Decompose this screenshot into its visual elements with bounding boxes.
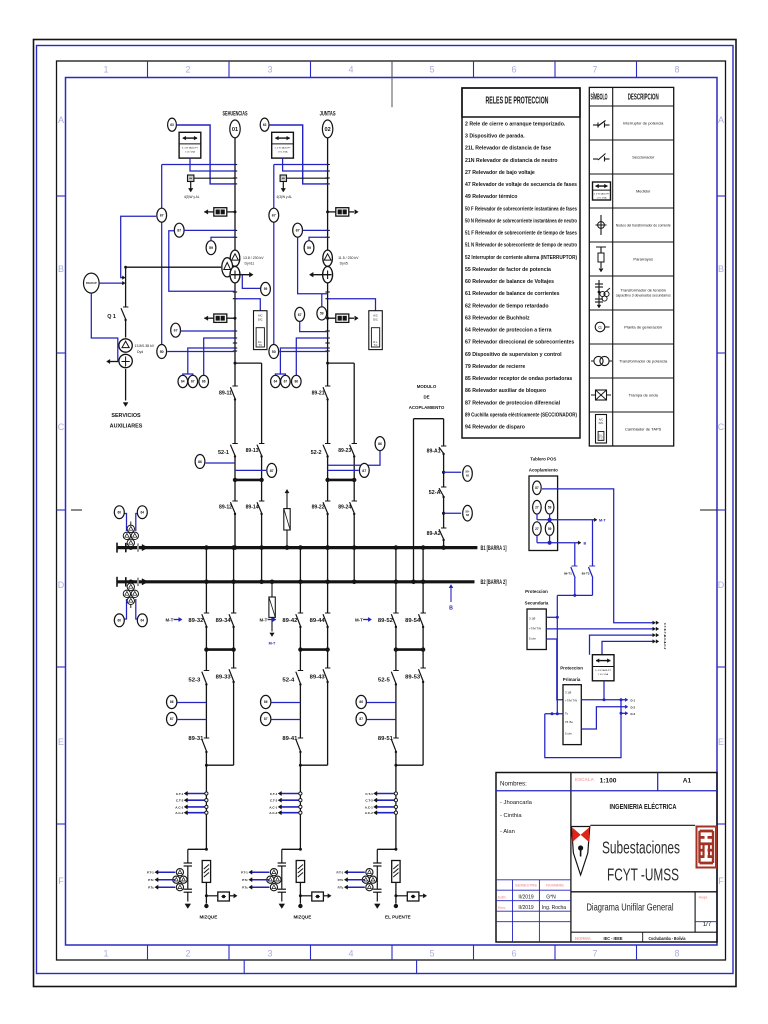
transformer T3 servicios auxiliares xyxy=(107,339,155,368)
svg-text:60: 60 xyxy=(118,510,122,514)
svg-text:7: 7 xyxy=(592,65,597,75)
trampa de onda outgoing bay 3 xyxy=(205,892,237,901)
svg-text:89-T2: 89-T2 xyxy=(582,572,590,576)
svg-text:79 Relevador de recierre: 79 Relevador de recierre xyxy=(465,364,525,370)
svg-text:87: 87 xyxy=(170,717,174,721)
svg-text:87: 87 xyxy=(359,717,363,721)
tablero POS acoplamiento xyxy=(529,457,558,551)
svg-text:Cochabamba - Bolivia: Cochabamba - Bolivia xyxy=(649,936,686,941)
svg-text:1 kV, 5/5A: 1 kV, 5/5A xyxy=(278,151,288,154)
svg-text:64: 64 xyxy=(274,380,278,384)
relay 87 bay 1 xyxy=(169,223,235,291)
svg-text:27: 27 xyxy=(535,527,539,531)
svg-text:SERVICIOS: SERVICIOS xyxy=(111,413,141,419)
symbol trampa de onda xyxy=(591,390,611,400)
svg-text:JUNTAS: JUNTAS xyxy=(320,112,336,118)
symbol pararrayos xyxy=(596,247,606,272)
svg-text:A.C-2: A.C-2 xyxy=(269,811,277,815)
svg-text:47 Relevador de voltaje de sec: 47 Relevador de voltaje de secuencia de … xyxy=(465,182,577,188)
svg-text:87: 87 xyxy=(264,717,268,721)
meter M2 xyxy=(272,132,294,158)
wire control riser bay 1 xyxy=(161,165,163,345)
svg-text:27 Relevador de bajo voltaje: 27 Relevador de bajo voltaje xyxy=(465,170,535,176)
svg-text:89-A1: 89-A1 xyxy=(427,449,441,455)
svg-text:89-32: 89-32 xyxy=(188,618,203,624)
svg-text:M-T: M-T xyxy=(599,519,606,523)
svg-text:T.C: T.C xyxy=(374,344,378,347)
relay 67 bay 2 xyxy=(269,208,279,222)
svg-text:60: 60 xyxy=(118,619,122,623)
symbol transformador de tension capacitivo xyxy=(595,280,610,308)
svg-text:M-T: M-T xyxy=(355,618,363,623)
svg-text:4: 4 xyxy=(348,65,353,75)
svg-text:F: F xyxy=(718,876,724,886)
svg-text:87: 87 xyxy=(535,486,539,490)
svg-text:- Alan: - Alan xyxy=(500,829,515,835)
relay 87 bay 1 breaker xyxy=(235,463,277,477)
svg-text:IEC - IEEE: IEC - IEEE xyxy=(604,936,624,942)
svg-text:ESCALA: ESCALA xyxy=(575,777,595,782)
svg-text:52-5: 52-5 xyxy=(378,678,390,684)
seccionador 89-A1 xyxy=(427,446,447,455)
relay 63 bay 2 xyxy=(260,118,327,184)
wire bypass branch bay 2 xyxy=(326,362,356,584)
fuse box bay 5 xyxy=(392,861,400,909)
svg-text:87: 87 xyxy=(362,469,366,473)
svg-text:49 Relevador térmico: 49 Relevador térmico xyxy=(465,194,517,200)
svg-text:52 Interruptor de corriente al: 52 Interruptor de corriente alterna (INT… xyxy=(465,255,577,261)
svg-text:67 Relevador direccional de so: 67 Relevador direccional de sobrecorrien… xyxy=(465,340,574,346)
svg-text:3, 4 W 3A/4L/PT: 3, 4 W 3A/4L/PT xyxy=(595,669,612,672)
svg-text:capacitivo 3 devanados secunda: capacitivo 3 devanados secundarios xyxy=(616,293,671,298)
meter M1 xyxy=(179,132,201,158)
wire meter risers xyxy=(590,633,659,654)
svg-text:86 Relevador auxiliar de bloqu: 86 Relevador auxiliar de bloqueo xyxy=(465,388,546,394)
table SIMBOLO DESCRIPCION xyxy=(589,87,673,446)
svg-text:D-1: D-1 xyxy=(631,698,636,702)
relay group 64 87 86 bay 1 xyxy=(178,338,235,388)
seccionador 89-31 lower xyxy=(188,736,209,849)
svg-text:ACOPLAMIENTO: ACOPLAMIENTO xyxy=(409,405,445,410)
svg-text:D: D xyxy=(718,580,725,590)
svg-text:52-1: 52-1 xyxy=(218,450,229,456)
trampa de onda bay 1 upper xyxy=(204,208,236,216)
svg-text:1/7: 1/7 xyxy=(703,922,712,928)
svg-text:52-2: 52-2 xyxy=(311,450,322,456)
svg-text:50: 50 xyxy=(160,350,164,354)
svg-text:Proteccion: Proteccion xyxy=(525,589,548,594)
pararrayo bus2 fuse xyxy=(269,580,276,646)
svg-text:85 Relevador receptor de ondas: 85 Relevador receptor de ondas portadora… xyxy=(465,376,572,382)
svg-text:B: B xyxy=(718,264,724,274)
svg-text:BACKUP: BACKUP xyxy=(86,282,97,285)
relay BACKUP xyxy=(84,273,126,361)
aux box 4(3)W bay 1 xyxy=(184,175,235,199)
svg-text:67: 67 xyxy=(272,214,276,218)
svg-text:T.C: T.C xyxy=(599,437,603,440)
svg-text:1 kV, 5/5A: 1 kV, 5/5A xyxy=(597,197,607,200)
svg-text:C.T-1: C.T-1 xyxy=(270,792,278,796)
transformer T2 11.5 / 230 kV Dyn5 xyxy=(309,250,359,283)
svg-text:89-A2: 89-A2 xyxy=(427,531,441,537)
relay 86 bay 5 lower xyxy=(356,695,396,708)
feeder line SEHUENCIAS xyxy=(233,138,238,550)
meter M4 xyxy=(592,655,614,681)
svg-text:Núcleo del transformador de co: Núcleo del transformador de corriente xyxy=(616,223,672,228)
breaker 52-5 xyxy=(378,650,399,738)
svg-text:86: 86 xyxy=(170,700,174,704)
svg-text:Subestaciones: Subestaciones xyxy=(602,838,680,858)
svg-text:1: 1 xyxy=(103,65,108,75)
svg-text:8: 8 xyxy=(674,65,679,75)
svg-text:A.C-1: A.C-1 xyxy=(175,805,183,809)
wire bay 3 bus legs xyxy=(204,545,236,649)
seccionador 89-T1 xyxy=(564,543,578,596)
svg-text:A.C-1: A.C-1 xyxy=(269,805,277,809)
svg-text:7: 7 xyxy=(592,949,597,959)
svg-text:86: 86 xyxy=(295,380,299,384)
svg-text:Edit.: Edit. xyxy=(498,895,507,900)
svg-text:B2 [BARRA 2]: B2 [BARRA 2] xyxy=(481,579,507,586)
svg-text:55 Relevador de factor de pote: 55 Relevador de factor de potencia xyxy=(465,267,551,273)
svg-text:P.Tc: P.Tc xyxy=(338,886,344,890)
svg-text:D-3: D-3 xyxy=(631,712,636,716)
cambiador de TAPS bay 2 xyxy=(328,299,383,350)
title block frame xyxy=(496,773,717,943)
svg-text:94 Relevador de disparo: 94 Relevador de disparo xyxy=(465,425,525,431)
symbol cambiador de TAPS xyxy=(596,415,607,444)
svg-text:67: 67 xyxy=(174,329,178,333)
svg-text:M-T: M-T xyxy=(259,618,267,623)
seccionador 89-13 xyxy=(246,444,265,458)
relay 59 tablero upper xyxy=(545,500,554,514)
svg-text:A.C-2: A.C-2 xyxy=(663,641,667,649)
svg-text:SÍMBOLO: SÍMBOLO xyxy=(591,92,608,102)
seccionador 89-44 lower xyxy=(310,613,331,628)
feeder line JUNTAS xyxy=(325,138,330,550)
svg-text:52-A: 52-A xyxy=(429,490,441,496)
svg-text:11.5 / 230 kV: 11.5 / 230 kV xyxy=(338,256,359,260)
svg-text:B: B xyxy=(58,264,64,274)
svg-text:89-13: 89-13 xyxy=(246,448,259,454)
svg-text:13.8 / 230 kV: 13.8 / 230 kV xyxy=(243,256,264,260)
svg-text:89-42: 89-42 xyxy=(282,618,297,624)
wire acoplamiento frame xyxy=(411,419,446,584)
svg-text:Dyd: Dyd xyxy=(137,350,143,354)
svg-text:64: 64 xyxy=(181,380,185,384)
relay 63 bay 1 xyxy=(168,118,235,184)
wire junction bay 5 xyxy=(394,764,423,767)
relay 87 tablero xyxy=(533,481,542,495)
svg-text:86: 86 xyxy=(359,700,363,704)
proteccion secundaria box xyxy=(525,589,549,650)
svg-text:C.T-2: C.T-2 xyxy=(365,799,373,803)
CVT bus1 metering xyxy=(114,506,147,550)
svg-text:62: 62 xyxy=(466,513,470,517)
bus B1 [BARRA 1] xyxy=(117,543,507,553)
seccionador 89-42 lower xyxy=(282,613,303,628)
relay 67 bay 1 xyxy=(157,208,167,222)
svg-text:4(3)W y AL: 4(3)W y AL xyxy=(184,195,200,199)
arrow M-T bay 5 xyxy=(355,617,372,622)
pararrayo bus1 fuse xyxy=(284,490,290,550)
breaker 52-2 xyxy=(311,444,331,458)
svg-text:C: C xyxy=(58,422,65,432)
modulo de acoplamiento label xyxy=(409,384,445,410)
svg-text:D/C: D/C xyxy=(599,421,604,425)
grid column numbers xyxy=(103,65,679,959)
svg-text:P.Tc: P.Tc xyxy=(242,886,248,890)
svg-text:P.Tc: P.Tc xyxy=(338,878,344,882)
svg-text:63 Relevador de Buchholz: 63 Relevador de Buchholz xyxy=(465,315,530,321)
svg-text:21L Relevador de distancia de: 21L Relevador de distancia de fase xyxy=(465,146,551,152)
svg-text:C.T-2: C.T-2 xyxy=(270,799,278,803)
relay 59 bay 1 xyxy=(206,237,235,254)
svg-text:89-T1: 89-T1 xyxy=(564,572,572,576)
relay 86 bay 3 lower xyxy=(167,695,207,708)
svg-text:67: 67 xyxy=(284,380,288,384)
seccionador 89-14 xyxy=(246,501,265,515)
svg-text:62: 62 xyxy=(466,473,470,477)
relay 50 bay 2 xyxy=(269,345,328,359)
svg-text:4(3)W y AL: 4(3)W y AL xyxy=(276,195,292,199)
relay 50 bay 1 xyxy=(157,345,235,359)
svg-text:86: 86 xyxy=(378,442,382,446)
tie bar bay 3 lower xyxy=(204,647,236,651)
table RELES DE PROTECCION xyxy=(462,88,580,438)
svg-text:+T/M T/N: +T/M T/N xyxy=(565,699,577,703)
svg-text:6: 6 xyxy=(511,949,516,959)
wire bypass branch bay 1 xyxy=(234,362,264,584)
svg-text:Trampa de onda: Trampa de onda xyxy=(629,393,659,398)
svg-text:Tablero POS: Tablero POS xyxy=(530,457,556,462)
CT secondaries bay 4 xyxy=(269,791,302,815)
svg-text:89-34: 89-34 xyxy=(216,618,232,624)
wire control riser bay 2 xyxy=(273,165,275,345)
svg-text:Nombres:: Nombres: xyxy=(500,781,527,788)
svg-text:RELES DE PROTECCION: RELES DE PROTECCION xyxy=(486,96,549,107)
svg-text:Dyn5: Dyn5 xyxy=(340,262,348,266)
svg-text:MIZQUE: MIZQUE xyxy=(293,915,311,920)
node B arrow bus2 xyxy=(449,585,453,612)
tie bar bay 2 xyxy=(325,478,356,482)
svg-text:52-4: 52-4 xyxy=(282,678,295,684)
svg-text:MODULO: MODULO xyxy=(417,384,437,389)
svg-text:II/2019: II/2019 xyxy=(518,905,534,911)
aux box 4(3)W bay 2 xyxy=(276,175,327,199)
svg-text:50: 50 xyxy=(272,350,276,354)
svg-text:61 Relevador de balance de cor: 61 Relevador de balance de corrientes xyxy=(465,291,560,297)
svg-text:NORMA: NORMA xyxy=(575,936,591,941)
seccionador 89-23 xyxy=(338,444,357,458)
svg-text:63: 63 xyxy=(263,123,267,127)
wire junction bay 3 xyxy=(205,764,234,767)
breaker 52-A xyxy=(429,487,447,498)
relay 87 bay 4 lower xyxy=(261,712,301,725)
svg-text:89-14: 89-14 xyxy=(246,505,259,511)
svg-text:89-52: 89-52 xyxy=(378,618,393,624)
outgoing line MIZQUE xyxy=(199,915,217,920)
wire tablero M-T output xyxy=(537,514,606,523)
svg-text:- Jhoancarla: - Jhoancarla xyxy=(500,800,533,806)
svg-text:52-3: 52-3 xyxy=(188,678,200,684)
node 02 xyxy=(322,120,332,138)
wire tablero 87 output xyxy=(542,489,659,625)
svg-text:89-12: 89-12 xyxy=(219,505,232,511)
breaker 52-1 xyxy=(218,444,238,458)
svg-text:Secundaria: Secundaria xyxy=(525,601,549,606)
svg-text:1:100: 1:100 xyxy=(600,778,617,785)
symbol nucleo del transformador de corriente xyxy=(596,215,607,235)
seccionador 89-51 lower xyxy=(378,736,399,849)
seccionador 89-21 xyxy=(312,386,331,401)
svg-text:T.C: T.C xyxy=(258,344,262,347)
wire meter leads bay 2 xyxy=(274,158,328,171)
svg-text:89 Cuchilla operada eléctricam: 89 Cuchilla operada eléctricamente (SECC… xyxy=(465,412,577,418)
svg-text:P.Tc: P.Tc xyxy=(242,878,248,882)
svg-text:Dyn11: Dyn11 xyxy=(245,262,255,266)
svg-text:89-51: 89-51 xyxy=(378,736,393,742)
symbol transformador de potencia xyxy=(591,356,612,365)
svg-text:3 1Ø: 3 1Ø xyxy=(529,617,536,621)
svg-text:Seccionador: Seccionador xyxy=(632,155,655,160)
relay 86 bay 4 lower xyxy=(261,695,301,708)
svg-text:Primaria: Primaria xyxy=(563,677,581,682)
logo shield FCYT xyxy=(572,827,590,876)
CT secondaries bay 5 xyxy=(365,791,398,815)
incoming line label JUNTAS xyxy=(320,112,336,118)
seccionador 89-12 xyxy=(219,501,238,515)
svg-text:Interruptor de potencia: Interruptor de potencia xyxy=(623,121,664,126)
svg-text:D: D xyxy=(58,580,65,590)
svg-text:INGENIERIA ELÉCTRICA: INGENIERIA ELÉCTRICA xyxy=(610,802,677,811)
svg-text:64: 64 xyxy=(141,619,145,623)
svg-text:5 y/m: 5 y/m xyxy=(565,732,573,736)
svg-text:89-33: 89-33 xyxy=(216,675,231,681)
svg-text:Rev.: Rev. xyxy=(498,905,506,910)
feeder servicios auxiliares xyxy=(110,369,143,430)
svg-text:A: A xyxy=(718,115,724,125)
seccionador 89-T2 xyxy=(582,520,596,596)
svg-text:Ing. Rocha: Ing. Rocha xyxy=(542,905,566,911)
grid reference band border xyxy=(57,61,726,960)
wire proteccion primaria harness xyxy=(545,681,636,758)
seccionador 89-A2 xyxy=(427,528,447,541)
svg-text:D/C: D/C xyxy=(258,317,263,321)
svg-text:59: 59 xyxy=(548,505,552,509)
seccionador 89-32 lower xyxy=(188,613,209,628)
incoming line label SEHUENCIAS xyxy=(223,112,248,118)
svg-text:64 Relevador de proteccion a t: 64 Relevador de proteccion a tierra xyxy=(465,328,552,334)
svg-text:G: G xyxy=(598,325,602,330)
relay group 64 87 86 bay 2 xyxy=(271,338,328,388)
svg-text:1 kV, 5/5A: 1 kV, 5/5A xyxy=(598,673,608,676)
svg-text:6: 6 xyxy=(511,65,516,75)
relay 59 transformer bay 2 xyxy=(317,294,327,320)
svg-text:M-T: M-T xyxy=(269,642,276,646)
svg-text:50 N Relevador de sobrecorrien: 50 N Relevador de sobrecorriente instant… xyxy=(465,218,577,224)
trampa de onda outgoing bay 5 xyxy=(394,892,426,901)
svg-text:64: 64 xyxy=(141,510,145,514)
svg-text:89-41: 89-41 xyxy=(282,736,297,742)
svg-text:50 F Relevador de sobrecorrien: 50 F Relevador de sobrecorriente instant… xyxy=(465,206,577,212)
svg-text:AUXILIARES: AUXILIARES xyxy=(110,424,143,430)
svg-text:P.Tc: P.Tc xyxy=(148,878,154,882)
svg-text:3: 3 xyxy=(267,949,272,959)
svg-text:Hoja: Hoja xyxy=(699,895,708,900)
svg-text:89-23: 89-23 xyxy=(338,448,351,454)
svg-text:Medidor: Medidor xyxy=(636,189,651,194)
wire junction bay 4 xyxy=(299,764,328,767)
svg-text:27: 27 xyxy=(535,505,539,509)
relay 87 bay 2 breaker xyxy=(328,463,370,477)
svg-text:D-2: D-2 xyxy=(631,705,636,709)
seccionador 89-52 lower xyxy=(378,613,399,628)
relay 59 transformer bay 1 xyxy=(242,275,270,296)
svg-text:II/2019: II/2019 xyxy=(518,895,534,901)
svg-text:89-11: 89-11 xyxy=(219,391,232,397)
svg-text:P.T-1: P.T-1 xyxy=(337,871,344,875)
svg-text:89-31: 89-31 xyxy=(188,736,203,742)
svg-text:±5 /5o: ±5 /5o xyxy=(565,720,573,724)
svg-text:1: 1 xyxy=(103,949,108,959)
tie bar bay 5 lower xyxy=(394,647,426,651)
svg-text:87 Relevador de proteccion dif: 87 Relevador de proteccion diferencial xyxy=(465,400,561,406)
wire meter leads bay 1 xyxy=(162,158,235,171)
seccionador 89-33 lower xyxy=(216,650,237,766)
arrow M-T bay 3 xyxy=(165,617,182,622)
svg-text:63: 63 xyxy=(170,123,174,127)
svg-text:3 Dispositivo de parada.: 3 Dispositivo de parada. xyxy=(465,134,525,140)
svg-text:Pararrayos: Pararrayos xyxy=(633,257,653,262)
trampa de onda bay 1 lower xyxy=(204,314,236,322)
CVT bus2 metering xyxy=(114,580,147,627)
logo UMSS emblem xyxy=(697,827,717,868)
svg-text:59: 59 xyxy=(209,246,213,250)
svg-text:C.T-1: C.T-1 xyxy=(365,792,373,796)
svg-text:2: 2 xyxy=(185,65,190,75)
svg-text:59: 59 xyxy=(264,287,268,291)
svg-text:EL PUENTE: EL PUENTE xyxy=(385,915,411,920)
svg-text:Acoplamiento: Acoplamiento xyxy=(529,468,558,473)
fuse box bay 4 xyxy=(296,861,304,909)
svg-text:C.T-1: C.T-1 xyxy=(176,792,184,796)
breaker 52-3 xyxy=(188,650,209,738)
svg-text:01: 01 xyxy=(232,127,238,133)
svg-text:87: 87 xyxy=(177,229,181,233)
svg-text:89-54: 89-54 xyxy=(405,618,421,624)
svg-text:3, 4 W 3A/4L/PT: 3, 4 W 3A/4L/PT xyxy=(275,147,292,150)
relay 50-62 acoplamiento upper xyxy=(442,466,472,482)
node 01 xyxy=(230,120,240,138)
svg-text:A.C-1: A.C-1 xyxy=(365,805,373,809)
relay 67 lower bay 2 xyxy=(295,307,328,331)
svg-text:D/C: D/C xyxy=(373,317,378,321)
svg-text:89-53: 89-53 xyxy=(405,675,420,681)
wire proteccion secundaria outputs xyxy=(546,616,659,714)
symbol seccionador xyxy=(593,154,610,162)
symbol interruptor de potencia xyxy=(593,121,610,128)
svg-text:M-T: M-T xyxy=(165,618,173,623)
svg-text:NOMBRE: NOMBRE xyxy=(546,883,564,888)
svg-text:A.C-2: A.C-2 xyxy=(365,811,373,815)
relay 59 tablero lower xyxy=(545,522,554,536)
transformer T1 13.8 / 230 kV Dyn11 xyxy=(222,250,264,283)
proteccion primaria box xyxy=(560,666,583,745)
svg-text:60 Relevador de balance de Vol: 60 Relevador de balance de Voltajes xyxy=(465,279,554,285)
svg-text:A/C: A/C xyxy=(373,314,378,318)
tie bar bay 4 lower xyxy=(298,647,330,651)
